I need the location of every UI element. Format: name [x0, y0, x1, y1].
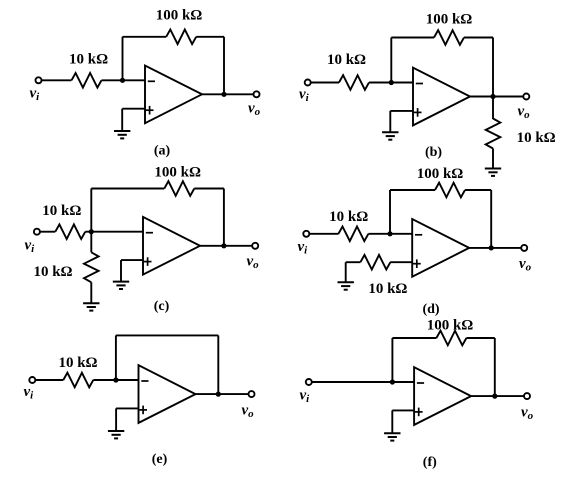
node at inverting input (c) [89, 229, 94, 234]
svg-text:100 kΩ: 100 kΩ [417, 166, 464, 182]
top feedback wire (e) [116, 334, 218, 336]
wire R2 to corner (d) [346, 261, 361, 263]
input terminal v_i (d) [303, 231, 309, 237]
svg-text:100 kΩ: 100 kΩ [154, 165, 201, 181]
output wire (d) [469, 247, 521, 249]
ground (f) [384, 433, 400, 440]
feedback wire down to output (f) [494, 338, 496, 396]
wire input to R1 (b) [310, 82, 339, 84]
ground (a) [114, 131, 130, 138]
output node (b) [490, 94, 495, 99]
feedback wire down to output (d) [490, 190, 492, 248]
output wire (a) [202, 93, 254, 95]
svg-text:10 kΩ: 10 kΩ [517, 130, 556, 146]
top feedback wire left segment (a) [123, 36, 167, 38]
top feedback wire right segment (d) [465, 189, 491, 191]
svg-text:100 kΩ: 100 kΩ [427, 318, 474, 334]
op-amp (d) [412, 219, 469, 277]
input terminal v_i (b) [305, 80, 311, 86]
op-amp (e) [139, 365, 196, 423]
feedback wire down to output (a) [223, 37, 225, 95]
output terminal v_o (e) [249, 391, 255, 397]
svg-text:10 kΩ: 10 kΩ [368, 281, 407, 297]
svg-text:10 kΩ: 10 kΩ [327, 52, 366, 68]
output wire (e) [196, 393, 249, 395]
resistor Rf 100 k (d) [435, 183, 465, 198]
op-amp (a) [145, 66, 202, 124]
svg-text:100 kΩ: 100 kΩ [156, 7, 203, 23]
op-amp (c) [143, 217, 200, 275]
resistor R1 10 k (b) [339, 75, 369, 90]
output wire (f) [471, 395, 524, 397]
node at inverting input (a) [120, 78, 125, 83]
ground below shunt resistor (c) [83, 303, 99, 310]
output terminal v_o (c) [252, 243, 258, 249]
wire noninverting input left (a) [122, 108, 145, 110]
wire input to R1 (a) [41, 79, 71, 81]
output node (f) [492, 394, 497, 399]
wire input direct to op-amp inverting input (f) [312, 381, 415, 383]
output node (e) [216, 392, 221, 397]
node at inverting input (d) [387, 231, 392, 236]
output wire (c) [200, 245, 253, 247]
output node (a) [221, 92, 226, 97]
output terminal v_o (a) [254, 91, 260, 97]
output wire (b) [470, 96, 524, 98]
svg-text:(e): (e) [152, 452, 168, 467]
svg-text:10 kΩ: 10 kΩ [33, 264, 72, 280]
op-amp (f) [414, 367, 471, 425]
feedback wire down to output (e) [217, 335, 219, 394]
resistor Rf 100 k (f) [436, 331, 466, 346]
svg-text:(b): (b) [425, 145, 442, 160]
svg-text:10 kΩ: 10 kΩ [42, 203, 81, 219]
wire output node to load resistor (b) [492, 97, 494, 120]
top feedback wire left segment (c) [91, 188, 164, 190]
resistor R1 10 k (a) [72, 73, 102, 88]
wire down to ground (d) [345, 262, 347, 282]
svg-text:10 kΩ: 10 kΩ [69, 51, 108, 67]
top feedback wire right segment (b) [464, 37, 493, 39]
node at inverting input (e) [113, 377, 118, 382]
ground at noninverting input (c) [113, 282, 129, 289]
resistor R2 10 k noninverting (d) [360, 255, 390, 270]
wire down to ground (a) [121, 109, 123, 131]
svg-text:10 kΩ: 10 kΩ [58, 355, 97, 371]
wire R1 to op-amp inverting input (a) [102, 79, 146, 81]
output node (c) [221, 243, 226, 248]
feedback wire up from node (b) [390, 38, 392, 83]
wire load resistor to ground (b) [492, 149, 494, 169]
wire R1 to op-amp inverting input (e) [93, 379, 138, 381]
output node (d) [489, 245, 494, 250]
resistor R2 10 k shunt (c) [84, 252, 99, 282]
node at inverting input (f) [390, 379, 395, 384]
wire R1 to op-amp inverting input (c) [85, 231, 143, 233]
resistor Rf 100 k (a) [166, 30, 196, 45]
resistor R1 10 k (d) [338, 227, 368, 242]
wire noninverting input left (f) [392, 409, 414, 411]
resistor RL 10 k (b) [486, 119, 501, 149]
top feedback wire right segment (a) [196, 36, 224, 38]
feedback wire down to output (b) [492, 38, 494, 97]
input terminal v_i (a) [36, 77, 42, 83]
wire R1 to op-amp inverting input (d) [368, 233, 412, 235]
ground at noninverting input (b) [382, 132, 398, 139]
wire input to R1 (d) [309, 233, 339, 235]
ground (e) [108, 431, 124, 438]
svg-text:(c): (c) [154, 299, 170, 314]
wire down to ground (c) [120, 260, 122, 282]
output terminal v_o (b) [523, 94, 529, 100]
feedback wire up from node (d) [389, 190, 391, 234]
output terminal v_o (d) [521, 245, 527, 251]
wire noninverting input left (e) [116, 407, 138, 409]
ground at noninverting network (d) [338, 282, 354, 289]
top feedback wire left segment (b) [391, 37, 434, 39]
wire noninverting input left (c) [121, 259, 143, 261]
node at inverting input (b) [389, 80, 394, 85]
resistor R1 10 k (c) [55, 224, 85, 239]
op-amp (b) [413, 68, 470, 126]
input terminal v_i (e) [29, 377, 35, 383]
top feedback wire left segment (d) [390, 189, 435, 191]
wire noninverting input left (b) [390, 110, 413, 112]
svg-text:10 kΩ: 10 kΩ [329, 209, 368, 225]
top feedback wire left segment (f) [392, 337, 436, 339]
wire node down to shunt resistor (c) [90, 232, 92, 253]
resistor R1 10 k (e) [63, 373, 93, 388]
wire noninverting input to R2 (d) [390, 261, 412, 263]
feedback wire up from node (a) [122, 37, 124, 81]
output terminal v_o (f) [524, 393, 530, 399]
feedback wire up from node (c) [90, 189, 92, 232]
ground below load resistor (b) [485, 169, 501, 176]
wire input to R1 (c) [40, 231, 56, 233]
svg-text:(a): (a) [154, 144, 171, 159]
wire down to ground (e) [115, 408, 117, 431]
wire input to R1 (e) [35, 379, 63, 381]
svg-text:(f): (f) [423, 455, 437, 470]
svg-text:(d): (d) [422, 302, 439, 317]
resistor Rf 100 k (c) [164, 181, 194, 196]
wire down to ground (b) [389, 111, 391, 132]
input terminal v_i (f) [306, 379, 312, 385]
resistor Rf 100 k (b) [434, 30, 464, 45]
wire down to ground (f) [391, 410, 393, 433]
feedback wire up from node (e) [115, 335, 117, 380]
svg-text:100 kΩ: 100 kΩ [426, 12, 473, 28]
top feedback wire right segment (f) [466, 337, 494, 339]
feedback wire down to output (c) [223, 189, 225, 246]
wire R1 to op-amp inverting input (b) [369, 82, 413, 84]
feedback wire up from node (f) [391, 338, 393, 382]
top feedback wire right segment (c) [194, 188, 224, 190]
input terminal v_i (c) [34, 229, 40, 235]
wire shunt resistor to ground (c) [90, 282, 92, 303]
